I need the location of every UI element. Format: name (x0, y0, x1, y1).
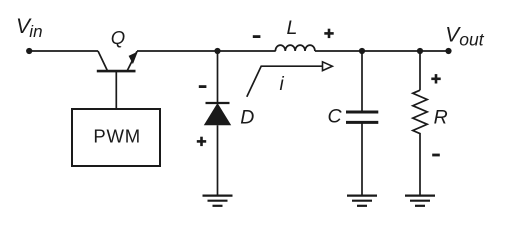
capacitor C (346, 112, 378, 122)
label - (resistor bottom) (432, 154, 440, 157)
transistor Q (97, 51, 138, 71)
diode D (204, 103, 231, 125)
svg-text:Q: Q (111, 27, 125, 48)
ground (capacitor) (347, 196, 377, 206)
wire: diode anode to ground (217, 125, 219, 195)
ground (resistor) (405, 196, 435, 206)
svg-text:PWM: PWM (93, 125, 141, 146)
resistor R zigzag (413, 90, 427, 137)
svg-text:D: D (240, 107, 254, 129)
svg-text:L: L (287, 17, 298, 39)
label - (inductor left) (253, 35, 261, 38)
wire: node C to Vout terminal (420, 50, 449, 52)
label Vout (445, 24, 485, 50)
ground (diode) (203, 196, 233, 206)
label + (resistor top) (431, 74, 440, 83)
node B junction dot (359, 48, 365, 54)
svg-text:out: out (459, 30, 484, 50)
wire: node B to node C (362, 50, 420, 52)
node A junction dot (214, 48, 220, 54)
wire: node A down to diode cathode (217, 51, 219, 103)
node C junction dot (417, 48, 423, 54)
wire: capacitor to ground (361, 122, 363, 195)
wire: node A to inductor (218, 50, 276, 52)
svg-text:C: C (328, 106, 343, 128)
wire: base to PWM box (115, 71, 117, 109)
wire: transistor emitter to node A (137, 50, 218, 52)
wire: node B down to capacitor (361, 51, 363, 112)
PWM box (72, 109, 160, 166)
label - (diode top) (199, 85, 207, 88)
svg-text:in: in (29, 22, 42, 41)
wire: Vin to transistor collector (29, 50, 98, 52)
label + (diode bottom) (197, 137, 206, 146)
current arrow i (247, 62, 332, 97)
wire: resistor to ground (419, 137, 421, 196)
label Vin (16, 15, 43, 41)
Vout terminal dot (445, 48, 451, 54)
wire: inductor to node B (315, 50, 362, 52)
svg-text:R: R (434, 106, 448, 128)
wire: node C down to resistor (419, 51, 421, 90)
Vin terminal dot (26, 48, 32, 54)
label + (inductor right) (324, 29, 333, 38)
inductor L (275, 45, 315, 51)
